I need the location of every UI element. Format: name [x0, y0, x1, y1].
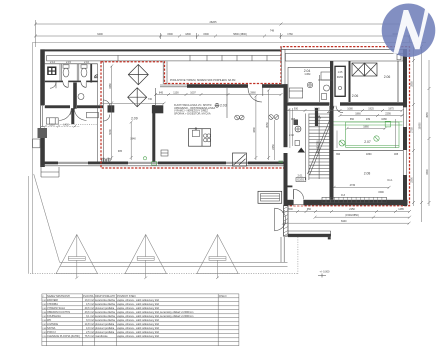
svg-text:90/60: 90/60 — [337, 76, 344, 79]
svg-text:905: 905 — [291, 118, 296, 121]
cabinet right side — [87, 112, 99, 118]
svg-text:2.03: 2.03 — [220, 103, 227, 107]
room 2.06 — [352, 63, 377, 76]
svg-text:1925: 1925 — [368, 108, 374, 111]
svg-text:KOUPELNA: KOUPELNA — [47, 314, 61, 318]
svg-text:2.09: 2.09 — [131, 117, 138, 121]
svg-text:vapka, obnova - vabit odkouzen: vapka, obnova - vabit odkouzeny klid — [117, 334, 159, 338]
horizontal dim in hall — [101, 102, 164, 104]
svg-text:vapka, obnova - vabit odkouzen: vapka, obnova - vabit odkouzeny klid — [117, 318, 159, 322]
svg-text:3050: 3050 — [266, 122, 269, 128]
svg-text:NAZEV MISTNOSTI: NAZEV MISTNOSTI — [47, 294, 70, 298]
svg-text:3,3 m2: 3,3 m2 — [86, 318, 94, 322]
corridor symbols — [295, 126, 301, 132]
site boundary — [29, 42, 426, 273]
svg-text:keramicka dlazba: keramicka dlazba — [95, 302, 115, 306]
svg-text:vapka, obnova - vabit odkouzen: vapka, obnova - vabit odkouzeny klid — [117, 302, 159, 306]
svg-text:vapka, obnova - vabit odkouzen: vapka, obnova - vabit odkouzeny klid — [117, 330, 159, 334]
middle wall — [288, 102, 330, 105]
central vertical wall — [73, 83, 77, 109]
wall between hall and kitchen — [154, 88, 156, 105]
shaft at红 notch — [162, 62, 164, 85]
window band in bottom wall — [322, 197, 387, 202]
svg-text:vapka, obnova - vabit odkouzen: vapka, obnova - vabit odkouzeny klid — [117, 322, 159, 326]
svg-text:3,1 m2: 3,1 m2 — [86, 314, 94, 318]
svg-text:1415: 1415 — [63, 123, 69, 126]
svg-text:PODLAHOVE TOPENI, SNIZENI SDK: PODLAHOVE TOPENI, SNIZENI SDK PODHLEDU N… — [170, 79, 235, 82]
svg-text:5800 (3800): 5800 (3800) — [233, 33, 247, 36]
svg-text:1860: 1860 — [355, 113, 361, 116]
right outer wall with window gaps — [403, 49, 407, 107]
svg-text:748: 748 — [270, 30, 275, 33]
rooms top row walls — [330, 61, 333, 106]
svg-text:1800: 1800 — [185, 33, 191, 36]
main divider wall center — [284, 84, 288, 147]
svg-text:DRUH PODLAHY: DRUH PODLAHY — [95, 294, 116, 298]
svg-text:2860: 2860 — [250, 91, 256, 94]
svg-text:vapka, obnova - vabit odkouzen: vapka, obnova - vabit odkouzeny klid — [117, 306, 159, 310]
right dimension columns — [411, 45, 431, 222]
svg-text:950: 950 — [307, 208, 312, 211]
top outer wall — [41, 49, 282, 51]
entry door leaf and arc — [293, 189, 295, 199]
svg-text:plovouci podlaha: plovouci podlaha — [95, 306, 115, 310]
ramp rectangle outside — [258, 191, 282, 203]
top dimension lines — [34, 20, 411, 47]
svg-text:1860: 1860 — [366, 153, 372, 156]
svg-text:keramicka dlazba: keramicka dlazba — [95, 310, 115, 314]
svg-text:465: 465 — [394, 153, 399, 156]
wall stub left of door — [286, 186, 292, 188]
svg-text:4330: 4330 — [253, 127, 256, 133]
svg-text:POVRCH STEN: POVRCH STEN — [117, 294, 136, 298]
svg-text:VYDEJNI SALA: VYDEJNI SALA — [47, 306, 65, 310]
svg-text:8440: 8440 — [341, 220, 347, 223]
svg-text:3555: 3555 — [411, 81, 414, 87]
svg-text:845: 845 — [159, 91, 164, 94]
vertical dim line in hall — [111, 66, 113, 160]
svg-text:390: 390 — [336, 153, 341, 156]
WC room wall — [90, 64, 92, 83]
svg-text:1860: 1860 — [363, 126, 369, 129]
svg-text:keramicka dlazba: keramicka dlazba — [95, 298, 115, 302]
steps at bottom-left corner — [41, 167, 59, 177]
svg-text:2,5 m2: 2,5 m2 — [86, 330, 94, 334]
svg-text:POKOJ: POKOJ — [47, 330, 56, 334]
svg-text:43,6 m2: 43,6 m2 — [85, 310, 95, 314]
svg-text:ZADVERI: ZADVERI — [47, 298, 58, 302]
svg-text:CISLO: CISLO — [219, 294, 227, 298]
room 2.05 shaft — [335, 66, 345, 96]
door arc corridor — [71, 108, 78, 115]
cubicle door arcs — [50, 82, 86, 88]
svg-text:vapka, obnova - vabit odkouzen: vapka, obnova - vabit odkouzeny klid, ke… — [117, 310, 193, 314]
svg-text:650: 650 — [350, 118, 355, 121]
svg-text:18x162/280: 18x162/280 — [317, 140, 320, 154]
svg-text:plovouci podlaha: plovouci podlaha — [95, 326, 115, 330]
pillar on left wall — [38, 128, 48, 138]
svg-text:930: 930 — [294, 108, 299, 111]
cubicle zone top line — [45, 63, 98, 65]
svg-text:1100: 1100 — [173, 91, 179, 94]
wall stubs — [108, 105, 115, 112]
left outer wall double line with fill segments — [41, 49, 45, 105]
section triangle — [298, 148, 306, 153]
west double wall of right wing — [280, 47, 282, 84]
door side line — [262, 84, 264, 96]
electrical box with diagonal — [233, 153, 247, 166]
porch outline lines bottom center — [281, 231, 331, 262]
svg-text:14,8 m2: 14,8 m2 — [85, 322, 95, 326]
svg-text:2.14: 2.14 — [50, 61, 55, 64]
svg-text:2.06: 2.06 — [352, 94, 359, 98]
door arcs on hall left wall — [103, 100, 110, 107]
svg-text:1760: 1760 — [287, 33, 293, 36]
svg-text:plovouci podlaha: plovouci podlaha — [95, 322, 115, 326]
svg-text:SATNA: SATNA — [47, 326, 56, 330]
vertical dim x=256 — [255, 96, 257, 160]
svg-text:1080: 1080 — [347, 108, 353, 111]
svg-text:2450: 2450 — [272, 144, 275, 150]
svg-text:plovouci podlaha: plovouci podlaha — [95, 330, 115, 334]
wall under red line y84..88 — [164, 84, 248, 88]
bottom dim lines — [284, 211, 410, 213]
svg-text:(1500/2850): (1500/2850) — [345, 214, 359, 217]
corner basin in WC room — [94, 75, 97, 78]
svg-text:730: 730 — [148, 98, 153, 101]
svg-text:CLENACE PLOCHA (ZAHR.): CLENACE PLOCHA (ZAHR.) — [47, 334, 80, 338]
top thin edge + canopy strip — [281, 48, 407, 50]
svg-text:mandlovka: mandlovka — [95, 334, 108, 338]
svg-text:2550: 2550 — [411, 177, 414, 183]
svg-text:4,5 m2: 4,5 m2 — [86, 302, 94, 306]
window in left wall — [41, 105, 45, 127]
exterior box left of wall — [33, 139, 40, 148]
svg-text:5030: 5030 — [109, 129, 112, 135]
svg-text:keramicka dlazba: keramicka dlazba — [95, 318, 115, 322]
svg-text:PLOCHA: PLOCHA — [83, 294, 94, 298]
svg-text:2295: 2295 — [385, 113, 391, 116]
svg-text:1080: 1080 — [381, 118, 387, 121]
logo — [382, 4, 436, 58]
svg-text:1007: 1007 — [190, 91, 196, 94]
svg-text:+/- 0,000: +/- 0,000 — [320, 271, 331, 274]
dotted line across room — [58, 123, 97, 125]
WC symbols — [63, 65, 87, 77]
svg-text:239: 239 — [366, 118, 371, 121]
svg-text:4730: 4730 — [350, 184, 356, 187]
svg-text:2.15: 2.15 — [66, 61, 71, 64]
svg-text:WC: WC — [47, 318, 51, 322]
svg-text:15080: 15080 — [419, 122, 422, 130]
svg-text:1500: 1500 — [167, 33, 173, 36]
svg-text:2.02: 2.02 — [289, 134, 294, 137]
svg-text:2150: 2150 — [349, 208, 355, 211]
staircase — [305, 114, 332, 181]
svg-text:keramicka dlazba: keramicka dlazba — [95, 314, 115, 318]
bench in lower-left room — [46, 118, 58, 124]
counters — [189, 129, 211, 147]
svg-text:vapka, obnova - vabit odkouzen: vapka, obnova - vabit odkouzeny klid — [117, 298, 159, 302]
svg-text:76,5 m2: 76,5 m2 — [85, 334, 95, 338]
diamond units — [128, 65, 149, 107]
red dashed outline — [101, 47, 410, 206]
dim line kitchen — [155, 94, 281, 96]
svg-text:6400: 6400 — [97, 33, 103, 36]
stair top wall stub — [315, 108, 318, 126]
bottom wall band — [284, 200, 408, 206]
green drain — [143, 157, 146, 160]
svg-text:1545: 1545 — [314, 108, 320, 111]
canopy strip rectangle — [47, 55, 281, 61]
cubicle front wall with door gaps — [45, 80, 98, 82]
room 2.04 — [288, 66, 330, 68]
svg-text:1875: 1875 — [388, 108, 394, 111]
svg-text:4,9 m2: 4,9 m2 — [86, 326, 94, 330]
svg-text:LOZNICE: LOZNICE — [47, 322, 58, 326]
svg-text:4955: 4955 — [426, 112, 429, 118]
thermostat circles — [269, 115, 274, 120]
svg-text:O.Z: O.Z — [341, 194, 346, 197]
svg-text:E2/D1: E2/D1 — [297, 179, 305, 182]
double door to lower-left room — [71, 108, 74, 124]
svg-text:2.01: 2.01 — [297, 174, 303, 178]
svg-text:1.05: 1.05 — [338, 71, 343, 74]
dark sink unit — [47, 67, 56, 76]
svg-text:Dv.1: Dv.1 — [388, 179, 394, 182]
svg-text:OBRADNI KUCHYN: OBRADNI KUCHYN — [47, 310, 70, 314]
svg-text:SPORAK + DIGESTOR, MYCKA: SPORAK + DIGESTOR, MYCKA — [174, 112, 211, 115]
svg-text:1500: 1500 — [203, 33, 209, 36]
svg-text:905: 905 — [118, 150, 123, 153]
room 2.08 — [334, 149, 404, 151]
svg-text:vapka, obnova - vabit odkouzen: vapka, obnova - vabit odkouzeny klid — [117, 326, 159, 330]
svg-text:26265: 26265 — [210, 21, 218, 24]
svg-text:1485: 1485 — [398, 208, 404, 211]
svg-text:3300: 3300 — [426, 169, 429, 175]
svg-text:13,0 m2: 13,0 m2 — [85, 298, 95, 302]
svg-text:1500: 1500 — [287, 208, 293, 211]
bottom wall of hall/left wing — [41, 161, 288, 166]
porch walls below — [284, 206, 289, 236]
svg-text:2755: 2755 — [411, 127, 414, 133]
svg-text:2.06: 2.06 — [384, 75, 391, 79]
svg-text:vapka, obnova - vabit odkouzen: vapka, obnova - vabit odkouzeny klid, ke… — [117, 314, 193, 318]
svg-text:2.08: 2.08 — [364, 172, 371, 176]
corridor main wall — [45, 105, 70, 108]
svg-text:CHODBA: CHODBA — [47, 302, 58, 306]
svg-text:1590: 1590 — [378, 191, 384, 194]
svg-text:40,6 m2: 40,6 m2 — [85, 306, 95, 310]
door arcs middle wall — [327, 106, 334, 113]
green heating elements — [334, 121, 403, 147]
circle basin on central wall — [78, 94, 84, 100]
radiator band bottom — [334, 186, 389, 188]
cubicle partitions — [60, 64, 79, 81]
interior dim lines right wing — [288, 108, 403, 148]
door leaves at porch — [275, 208, 286, 231]
svg-text:2.07: 2.07 — [364, 140, 371, 144]
svg-text:GSM: GSM — [305, 73, 311, 76]
stair right wall — [330, 106, 334, 200]
svg-text:3460: 3460 — [109, 83, 112, 89]
svg-text:2.16: 2.16 — [84, 61, 89, 64]
